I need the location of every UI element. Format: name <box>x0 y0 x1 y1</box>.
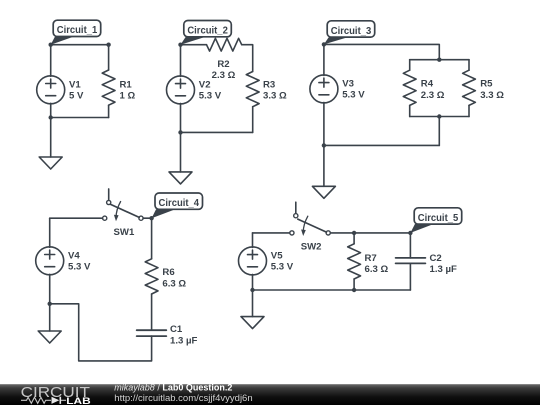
wire R5 top lead <box>468 60 470 70</box>
wire sw2 right rail <box>330 232 410 234</box>
wire V3 top lead <box>323 44 325 75</box>
node c3 bottom <box>322 143 326 147</box>
svg-text:R4: R4 <box>421 79 434 90</box>
svg-text:2.3 Ω: 2.3 Ω <box>212 70 236 81</box>
label callout Circuit_2 <box>181 21 232 45</box>
svg-text:1.3 µF: 1.3 µF <box>170 336 198 347</box>
label R7 6.3 ohm <box>365 253 389 275</box>
voltage source V5 <box>239 247 267 275</box>
svg-text:1 Ω: 1 Ω <box>120 91 136 102</box>
wire V2 bottom lead <box>180 103 182 132</box>
svg-text:mikaylab8 / Lab0 Question.2: mikaylab8 / Lab0 Question.2 <box>114 382 232 392</box>
svg-text:Circuit_3: Circuit_3 <box>331 26 372 37</box>
node c5 R7 top <box>352 231 356 235</box>
wire ground lead c1 <box>50 118 52 158</box>
node c4 top <box>149 216 153 220</box>
node c1 bottom <box>49 115 53 119</box>
label R5 3.3 ohm <box>480 79 504 101</box>
node c1 top-left <box>49 43 53 47</box>
voltage source V2 <box>167 76 195 104</box>
svg-text:C2: C2 <box>430 253 442 264</box>
node c4 bottom <box>48 302 52 306</box>
wire c2 top-left segment <box>181 44 207 46</box>
svg-text:C1: C1 <box>170 324 183 335</box>
svg-text:V4: V4 <box>68 250 80 261</box>
wire ground lead c2 <box>180 132 182 172</box>
logo resistor zigzag <box>21 397 51 403</box>
label V5 5.3 V <box>271 250 294 272</box>
svg-text:R7: R7 <box>365 253 377 264</box>
svg-text:LAB: LAB <box>66 395 91 405</box>
svg-text:V2: V2 <box>199 79 211 90</box>
wire V4 bottom lead <box>49 274 51 304</box>
wire V5 top lead <box>252 233 254 248</box>
svg-text:3.3 Ω: 3.3 Ω <box>263 91 287 102</box>
wire V2 top lead <box>180 45 182 77</box>
wire R1 bottom lead <box>108 105 110 117</box>
svg-text:3.3 Ω: 3.3 Ω <box>480 90 504 101</box>
node c3 parallel bottom junction <box>437 114 441 118</box>
wire R1 top lead <box>108 45 110 70</box>
svg-text:SW2: SW2 <box>301 242 322 253</box>
svg-text:R5: R5 <box>480 79 493 90</box>
capacitor C1 <box>137 330 167 336</box>
wire C2 bottom lead <box>409 263 411 290</box>
svg-text:6.3 Ω: 6.3 Ω <box>365 264 389 275</box>
voltage source V3 <box>310 75 338 103</box>
wire C2 top lead <box>409 233 411 258</box>
svg-text:6.3 Ω: 6.3 Ω <box>162 278 186 289</box>
wire R4 bottom lead <box>409 105 411 116</box>
label callout Circuit_1 <box>51 20 101 45</box>
svg-text:2.3 Ω: 2.3 Ω <box>421 90 445 101</box>
svg-text:http://circuitlab.com/csjjf4vy: http://circuitlab.com/csjjf4vyydj6n <box>114 393 252 404</box>
wire parallel top rail <box>410 59 469 61</box>
node c5 R7 bottom <box>352 288 356 292</box>
resistor R5 <box>463 70 476 105</box>
wire R7 top lead <box>353 233 355 244</box>
footer bar <box>0 384 540 405</box>
switch SW2 <box>290 202 331 236</box>
svg-text:Circuit_4: Circuit_4 <box>159 198 200 209</box>
ground c5 <box>241 317 264 329</box>
label V2 5.3 V <box>199 79 222 101</box>
svg-text:5.3 V: 5.3 V <box>199 91 222 102</box>
capacitor C2 <box>396 258 426 264</box>
label R1 1 ohm <box>120 79 136 101</box>
logo diode symbol <box>52 397 67 404</box>
switch SW1 <box>103 189 143 221</box>
wire bottom rail circuit 3 <box>324 144 439 146</box>
node c1 top-right <box>106 43 110 47</box>
wire R5 bottom lead <box>468 105 470 116</box>
wire top rail circuit 1 <box>51 44 109 46</box>
resistor R3 <box>246 72 259 107</box>
voltage source V4 <box>36 247 64 275</box>
wire C1 bottom path <box>50 304 152 361</box>
wire sw1 left <box>50 217 103 219</box>
wire c2 top-right segment <box>242 45 253 72</box>
wire top rail circuit 3 <box>324 44 439 59</box>
wire sw2 left <box>253 232 290 234</box>
wire bottom rail circuit 5 <box>253 289 411 291</box>
wire bottom rail circuit 1 <box>51 117 109 119</box>
svg-text:5.3 V: 5.3 V <box>342 90 365 101</box>
label V1 5 V <box>69 79 84 101</box>
label R4 2.3 ohm <box>421 79 445 101</box>
label V3 5.3 V <box>342 78 365 100</box>
wire R4 top lead <box>409 60 411 70</box>
wire V1 bottom lead <box>50 103 52 117</box>
wire V1 top lead <box>50 45 52 77</box>
svg-text:R6: R6 <box>162 267 174 278</box>
node c2 bottom <box>178 130 182 134</box>
node c5 bottom-left <box>250 288 254 292</box>
label C1 1.3 uF <box>170 324 198 346</box>
resistor R2 <box>207 38 242 51</box>
node c2 top-left <box>178 43 182 47</box>
ground c2 <box>169 172 192 184</box>
ground c1 <box>39 157 62 169</box>
svg-text:R1: R1 <box>120 79 133 90</box>
svg-text:Circuit_5: Circuit_5 <box>418 213 459 224</box>
label R2 2.3 ohm <box>212 59 236 81</box>
wire ground lead c5 <box>252 290 254 317</box>
svg-text:5.3 V: 5.3 V <box>68 262 91 273</box>
wire ground lead c3 <box>323 145 325 186</box>
wire V5 bottom lead <box>252 274 254 290</box>
resistor R7 <box>348 244 361 279</box>
resistor R1 <box>102 70 115 105</box>
wire V3 bottom lead <box>323 102 325 145</box>
node c5 C2 top <box>408 231 412 235</box>
wire bottom rail circuit 2 <box>181 131 253 133</box>
node c3 parallel top junction <box>437 58 441 62</box>
label C2 1.3 uF <box>430 253 458 275</box>
wire R7 bottom lead <box>353 279 355 290</box>
svg-text:SW1: SW1 <box>114 227 135 238</box>
wire R6 to C1 <box>151 294 153 330</box>
svg-text:Circuit_2: Circuit_2 <box>187 26 228 37</box>
label R3 3.3 ohm <box>263 79 287 101</box>
svg-text:Circuit_1: Circuit_1 <box>57 25 98 36</box>
wire R3 bottom lead <box>252 107 254 133</box>
label callout Circuit_4 <box>152 193 203 218</box>
wire sw1 right to node <box>143 217 152 219</box>
node c3 top-left <box>322 42 326 46</box>
wire R6 top lead <box>151 218 153 259</box>
wire V4 top lead <box>49 218 51 247</box>
wire parallel bottom rail <box>410 116 469 118</box>
svg-text:V3: V3 <box>342 78 354 89</box>
wire ground lead c4 <box>49 304 51 331</box>
label callout Circuit_5 <box>410 208 461 233</box>
resistor R6 <box>145 259 158 294</box>
svg-text:V1: V1 <box>69 79 81 90</box>
ground c3 <box>312 186 335 198</box>
voltage source V1 <box>37 76 65 104</box>
svg-text:R3: R3 <box>263 79 275 90</box>
svg-text:V5: V5 <box>271 250 283 261</box>
svg-text:5 V: 5 V <box>69 91 84 102</box>
resistor R4 <box>403 70 416 105</box>
ground c4 <box>38 331 61 343</box>
svg-text:1.3 µF: 1.3 µF <box>430 264 458 275</box>
label callout Circuit_3 <box>324 21 375 45</box>
label V4 5.3 V <box>68 250 91 272</box>
svg-text:R2: R2 <box>217 59 229 70</box>
wire c3 right down segment <box>438 117 440 146</box>
label R6 6.3 ohm <box>162 267 186 289</box>
svg-text:5.3 V: 5.3 V <box>271 262 294 273</box>
